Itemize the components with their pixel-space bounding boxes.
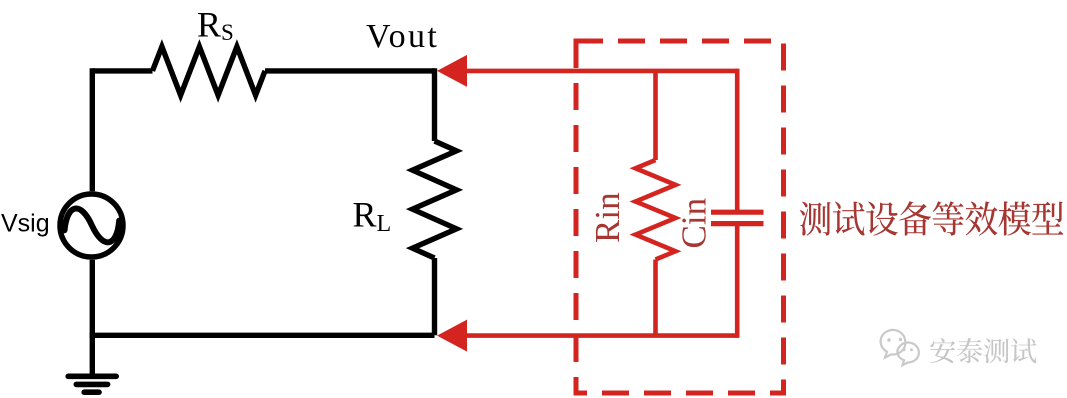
wire red bottom [462,333,737,338]
watermark wechat logo [881,330,919,365]
ground [68,376,116,392]
resistor Rin [636,160,676,260]
wire left branch lower [90,260,95,336]
label 测试设备等效模型 [800,201,1064,235]
wire left branch upper [90,68,95,191]
svg-text:Vsig: Vsig [1,210,50,238]
source Vsig [60,194,123,257]
resistor RL [413,141,457,258]
wire red top [462,69,737,74]
dashed equivalent-model box [576,41,784,393]
arrow into Vout node (top) [437,55,467,87]
wire Cin branch top [735,69,740,210]
wire bottom [90,333,435,338]
arrow into bottom node [437,320,467,352]
svg-text:Rin: Rin [588,192,627,243]
wire ground stem [90,335,95,376]
svg-text:Cin: Cin [675,198,714,249]
capacitor Cin [711,212,764,223]
wire Rin branch bottom [653,260,658,336]
wire RL to bottom [432,258,437,335]
resistor RS [153,47,266,96]
wire top from source to Vout node [92,68,434,73]
svg-text:Vout: Vout [366,18,439,55]
wire Rin branch top [653,71,658,160]
wire Vout node down to RL [432,68,437,141]
wire Cin branch bottom [735,226,740,338]
watermark 安泰测试 [932,339,1038,364]
